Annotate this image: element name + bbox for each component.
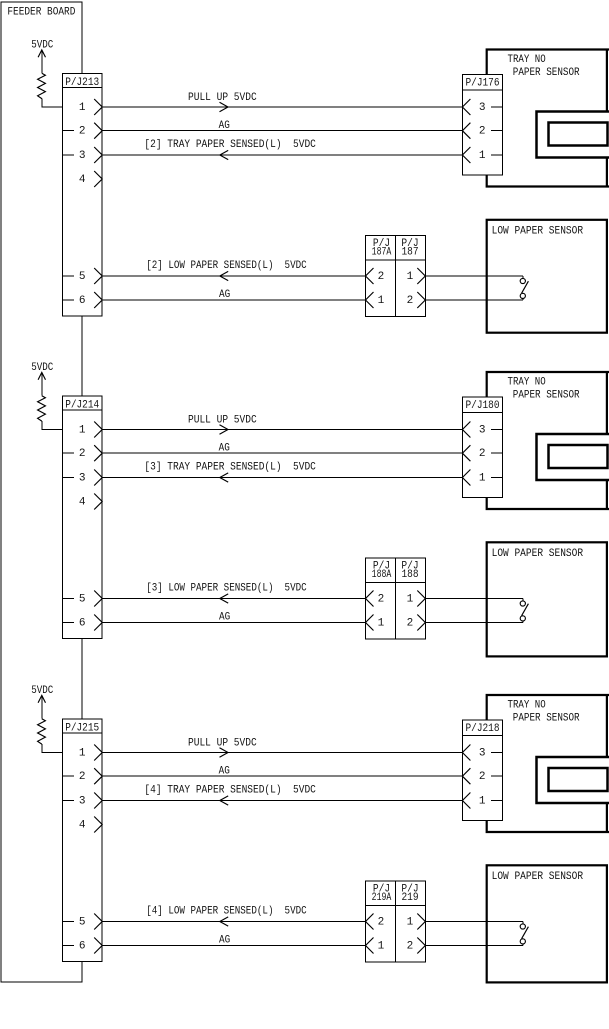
P/J180 pin 3	[462, 422, 502, 438]
P/J214 pin 6	[62, 615, 102, 631]
P/J219A pin 2	[366, 914, 385, 930]
svg-text:3: 3	[79, 472, 86, 484]
P/J176 pin 2	[462, 123, 502, 139]
svg-text:1: 1	[407, 916, 414, 928]
svg-text:3: 3	[79, 150, 86, 162]
svg-text:5VDC: 5VDC	[31, 362, 53, 374]
svg-text:P/J214: P/J214	[65, 400, 99, 412]
wire P/J188 pin2 to switch	[425, 622, 523, 624]
low paper switch (tray 2)	[520, 276, 528, 300]
svg-text:187: 187	[401, 246, 418, 258]
wire AG (pin2 to P/J180 pin2)	[102, 443, 462, 455]
P/J215 pin 2	[62, 768, 102, 784]
feeder board label	[7, 7, 75, 19]
svg-text:FEEDER BOARD: FEEDER BOARD	[7, 7, 75, 19]
svg-text:6: 6	[79, 940, 86, 952]
svg-text:1: 1	[479, 150, 486, 162]
pull-up resistor (tray 3)	[38, 396, 46, 421]
P/J219A pin 1	[366, 938, 385, 954]
P/J218 pin 3	[462, 745, 502, 761]
svg-text:AG: AG	[219, 766, 230, 778]
wire [3] LOW PAPER SENSED(L) 5VDC (pin5 to P/J188A pin2)	[102, 583, 365, 603]
svg-text:5: 5	[79, 593, 86, 605]
tray 4 sensor actuator slot	[549, 768, 608, 791]
svg-text:2: 2	[479, 126, 486, 138]
P/J214 pin 5	[62, 591, 102, 607]
wire AG (pin6 to P/J188A pin1)	[102, 612, 365, 624]
P/J180 pin 1	[462, 470, 502, 486]
P/J188 pin 2	[407, 615, 426, 631]
svg-text:[3] TRAY PAPER SENSED(L) 5VDC: [3] TRAY PAPER SENSED(L) 5VDC	[144, 462, 316, 474]
svg-text:[4] TRAY PAPER SENSED(L) 5VDC: [4] TRAY PAPER SENSED(L) 5VDC	[144, 785, 316, 797]
low paper switch (tray 3)	[520, 599, 528, 623]
svg-text:PAPER SENSOR: PAPER SENSOR	[513, 390, 580, 402]
svg-text:2: 2	[378, 593, 385, 605]
P/J215 pin 4	[79, 817, 102, 833]
P/J214 pin 3	[62, 470, 102, 486]
svg-text:P/J215: P/J215	[65, 723, 99, 735]
P/J176 pin 1	[462, 147, 502, 163]
svg-text:2: 2	[79, 448, 86, 460]
svg-text:PULL UP 5VDC: PULL UP 5VDC	[188, 92, 257, 104]
svg-text:2: 2	[79, 771, 86, 783]
svg-text:2: 2	[479, 448, 486, 460]
wire [2] LOW PAPER SENSED(L) 5VDC (pin5 to P/J187A pin2)	[102, 260, 365, 280]
wire P/J219 pin2 to switch	[425, 945, 523, 947]
P/J218 pin 1	[462, 793, 502, 809]
tray 3 no-paper sensor box	[487, 372, 609, 509]
svg-text:3: 3	[79, 795, 86, 807]
svg-text:1: 1	[479, 795, 486, 807]
svg-text:1: 1	[79, 424, 86, 436]
P/J213 pin 1	[79, 99, 102, 115]
P/J215 pin 5	[62, 914, 102, 930]
connector P/J218	[462, 720, 502, 820]
svg-text:1: 1	[479, 472, 486, 484]
connector P/J214	[62, 396, 102, 639]
tray 4 sensor photo-interrupter channel	[537, 757, 609, 803]
svg-text:PULL UP 5VDC: PULL UP 5VDC	[188, 415, 257, 427]
node 5VDC (tray 3 pull-up supply)	[31, 362, 53, 396]
pull-up resistor (tray 4)	[38, 719, 46, 744]
tray 2 sensor photo-interrupter channel	[537, 112, 609, 158]
P/J187 pin 2	[407, 292, 426, 308]
svg-text:1: 1	[79, 102, 86, 114]
svg-text:3: 3	[479, 424, 486, 436]
node 5VDC (tray 4 pull-up supply)	[31, 685, 53, 719]
svg-text:[2] TRAY PAPER SENSED(L) 5VDC: [2] TRAY PAPER SENSED(L) 5VDC	[144, 139, 316, 151]
svg-text:[3] LOW PAPER SENSED(L) 5VDC: [3] LOW PAPER SENSED(L) 5VDC	[146, 583, 307, 595]
tray 2 no-paper sensor box	[487, 50, 609, 187]
wire P/J219 pin1 to switch	[425, 921, 523, 923]
svg-text:LOW PAPER SENSOR: LOW PAPER SENSOR	[492, 871, 584, 883]
svg-text:LOW PAPER SENSOR: LOW PAPER SENSOR	[492, 225, 584, 237]
wire resistor to pin 1	[42, 421, 74, 429]
svg-text:1: 1	[378, 940, 385, 952]
svg-text:AG: AG	[219, 935, 230, 947]
svg-text:2: 2	[407, 617, 414, 629]
svg-text:2: 2	[79, 126, 86, 138]
connector P/J180	[462, 397, 502, 497]
tray 4 low paper sensor box	[487, 865, 607, 982]
wire PULL UP 5VDC (pin1 to P/J218 pin3)	[102, 738, 462, 758]
svg-text:6: 6	[79, 295, 86, 307]
svg-text:1: 1	[378, 295, 385, 307]
P/J213 pin 6	[62, 292, 102, 308]
svg-text:2: 2	[479, 771, 486, 783]
svg-text:P/J180: P/J180	[466, 400, 500, 412]
svg-text:4: 4	[79, 819, 86, 831]
pull-up resistor (tray 2)	[38, 73, 46, 98]
svg-text:3: 3	[479, 747, 486, 759]
svg-text:P/J218: P/J218	[466, 723, 500, 735]
svg-text:AG: AG	[219, 443, 230, 455]
P/J213 pin 4	[79, 171, 102, 187]
connector P/J176	[462, 74, 502, 174]
svg-text:1: 1	[79, 747, 86, 759]
wire [4] LOW PAPER SENSED(L) 5VDC (pin5 to P/J219A pin2)	[102, 906, 365, 926]
P/J215 pin 1	[79, 745, 102, 761]
P/J187 pin 1	[407, 268, 426, 284]
wire AG (pin6 to P/J187A pin1)	[102, 289, 365, 301]
wire PULL UP 5VDC (pin1 to P/J176 pin3)	[102, 92, 462, 112]
P/J215 pin 6	[62, 938, 102, 954]
svg-text:[4] LOW PAPER SENSED(L) 5VDC: [4] LOW PAPER SENSED(L) 5VDC	[146, 906, 307, 918]
connector P/J213	[62, 74, 102, 317]
svg-text:LOW PAPER SENSOR: LOW PAPER SENSOR	[492, 548, 584, 560]
P/J215 pin 3	[62, 793, 102, 809]
feeder board outline	[1, 2, 82, 982]
wire P/J187 pin1 to switch	[425, 275, 523, 277]
svg-text:[2] LOW PAPER SENSED(L) 5VDC: [2] LOW PAPER SENSED(L) 5VDC	[146, 260, 307, 272]
svg-text:3: 3	[479, 102, 486, 114]
tray 4 no-paper sensor box	[487, 695, 609, 832]
P/J187A pin 2	[366, 268, 385, 284]
svg-text:AG: AG	[219, 612, 230, 624]
connector P/J188A | P/J188	[366, 558, 426, 639]
svg-text:219A: 219A	[372, 892, 392, 904]
P/J219 pin 2	[407, 938, 426, 954]
P/J218 pin 2	[462, 768, 502, 784]
svg-text:1: 1	[407, 271, 414, 283]
P/J214 pin 4	[79, 494, 102, 510]
svg-text:188A: 188A	[372, 569, 392, 581]
svg-text:PAPER SENSOR: PAPER SENSOR	[513, 713, 580, 725]
P/J180 pin 2	[462, 445, 502, 461]
P/J188A pin 1	[366, 615, 385, 631]
P/J187A pin 1	[366, 292, 385, 308]
P/J188 pin 1	[407, 591, 426, 607]
tray 3 sensor photo-interrupter channel	[537, 434, 609, 480]
svg-text:6: 6	[79, 617, 86, 629]
svg-text:1: 1	[378, 617, 385, 629]
wire AG (pin6 to P/J219A pin1)	[102, 935, 365, 947]
svg-text:2: 2	[378, 916, 385, 928]
P/J213 pin 5	[62, 268, 102, 284]
P/J214 pin 2	[62, 445, 102, 461]
P/J188A pin 2	[366, 591, 385, 607]
wire [3] TRAY PAPER SENSED(L) 5VDC (pin3 to P/J180 pin1)	[102, 462, 462, 483]
P/J213 pin 3	[62, 147, 102, 163]
P/J213 pin 2	[62, 123, 102, 139]
svg-text:2: 2	[407, 940, 414, 952]
svg-text:5VDC: 5VDC	[31, 685, 53, 697]
wire P/J188 pin1 to switch	[425, 598, 523, 600]
wire [2] TRAY PAPER SENSED(L) 5VDC (pin3 to P/J176 pin1)	[102, 139, 462, 160]
wire [4] TRAY PAPER SENSED(L) 5VDC (pin3 to P/J218 pin1)	[102, 785, 462, 806]
svg-text:188: 188	[401, 569, 418, 581]
tray 2 sensor actuator slot	[549, 123, 608, 146]
wire AG (pin2 to P/J176 pin2)	[102, 120, 462, 132]
svg-text:4: 4	[79, 496, 86, 508]
wire AG (pin2 to P/J218 pin2)	[102, 766, 462, 778]
connector P/J187A | P/J187	[366, 235, 426, 316]
svg-text:187A: 187A	[372, 246, 392, 258]
svg-text:TRAY NO: TRAY NO	[508, 377, 547, 389]
wire resistor to pin 1	[42, 99, 74, 107]
svg-text:219: 219	[401, 892, 418, 904]
svg-text:2: 2	[407, 295, 414, 307]
wire PULL UP 5VDC (pin1 to P/J180 pin3)	[102, 415, 462, 435]
connector P/J219A | P/J219	[366, 881, 426, 962]
svg-text:PAPER SENSOR: PAPER SENSOR	[513, 67, 580, 79]
svg-text:PULL UP 5VDC: PULL UP 5VDC	[188, 738, 257, 750]
node 5VDC (tray 2 pull-up supply)	[31, 39, 53, 73]
connector P/J215	[62, 719, 102, 962]
svg-text:4: 4	[79, 174, 86, 186]
wire P/J187 pin2 to switch	[425, 299, 523, 301]
P/J219 pin 1	[407, 914, 426, 930]
svg-text:5: 5	[79, 916, 86, 928]
wire resistor to pin 1	[42, 744, 74, 752]
P/J214 pin 1	[79, 422, 102, 438]
svg-text:AG: AG	[219, 289, 230, 301]
svg-text:2: 2	[378, 271, 385, 283]
svg-text:AG: AG	[219, 120, 230, 132]
tray 3 sensor actuator slot	[549, 445, 608, 468]
svg-text:P/J213: P/J213	[65, 77, 99, 89]
svg-text:P/J176: P/J176	[466, 78, 500, 90]
svg-text:TRAY NO: TRAY NO	[508, 54, 547, 66]
svg-text:5: 5	[79, 271, 86, 283]
tray 2 low paper sensor box	[487, 220, 607, 333]
P/J176 pin 3	[462, 99, 502, 115]
low paper switch (tray 4)	[520, 922, 528, 946]
svg-text:1: 1	[407, 593, 414, 605]
svg-text:5VDC: 5VDC	[31, 39, 53, 51]
tray 3 low paper sensor box	[487, 542, 607, 656]
svg-text:TRAY NO: TRAY NO	[508, 700, 547, 712]
